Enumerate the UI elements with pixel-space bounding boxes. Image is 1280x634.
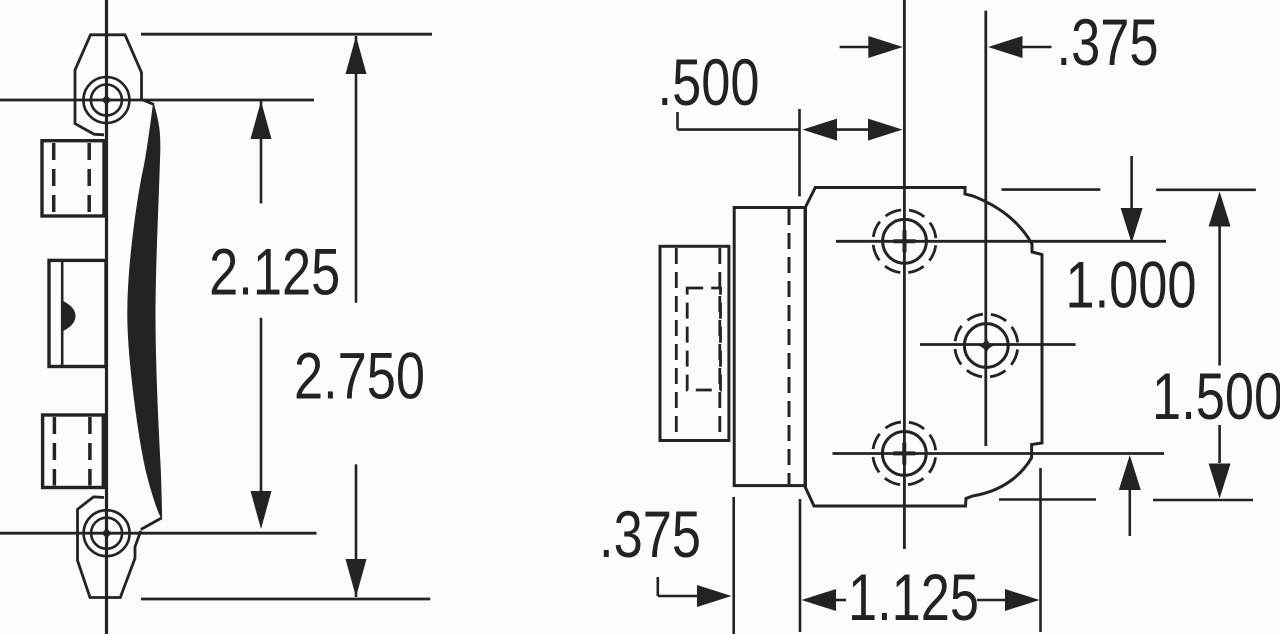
extension line body left edge above: [798, 109, 801, 196]
1.000 top arrow tail: [1130, 156, 1133, 210]
svg-text:1.000: 1.000: [1065, 248, 1196, 322]
1.500 arrow up: [1209, 192, 1231, 227]
bottom hole horizontal centerline: [833, 452, 1165, 455]
terminal end block: [660, 246, 729, 440]
1.125 dimension line left: [830, 599, 846, 602]
.375 top arrow right-pointing: [868, 36, 903, 58]
top hole phillips cross: [99, 93, 114, 108]
extension line 1.500 bottom: [999, 498, 1096, 501]
.375 top arrow left-pointing: [988, 36, 1023, 58]
1.000 arrow up: [1119, 455, 1141, 490]
terminal tab 3 (bottom) rectangle: [43, 415, 104, 488]
middle hole horizontal centerline: [920, 343, 1076, 346]
terminal end hidden line left: [675, 248, 678, 439]
bottom hole horizontal centerline: [0, 532, 317, 535]
top mounting hole dashed circle: [873, 210, 936, 273]
tab 1 hidden line right: [87, 143, 91, 214]
top mounting hole circle: [883, 219, 927, 263]
bottom hole cross: [893, 442, 915, 464]
1.125 dimension line right: [977, 599, 1012, 602]
1.500 top arrow tail: [1218, 226, 1221, 366]
top mounting ear outline: [75, 35, 142, 135]
.500 leader line: [678, 128, 801, 131]
vertical centerline CL1 (mounting holes): [903, 0, 906, 549]
1.500 bottom arrow tail: [1218, 425, 1221, 463]
extension line body top right: [1002, 188, 1101, 191]
terminal end hidden line right: [718, 248, 721, 439]
tab 2 detent bump: [63, 301, 76, 331]
1.125 arrow left-pointing: [802, 589, 837, 611]
bezel block (second block): [734, 208, 805, 486]
2.125 arrow up: [251, 101, 272, 139]
top hole horizontal centerline: [836, 240, 1166, 243]
extension line body left edge below: [799, 499, 802, 632]
dimension line 2.750 lower segment: [355, 464, 358, 597]
terminal end hidden rectangle: [687, 288, 720, 390]
terminal tab 2 (middle) rectangle: [49, 260, 106, 366]
middle hole dashed circle: [955, 314, 1018, 377]
dimension line 2.125 upper segment: [260, 101, 263, 204]
svg-text:.375: .375: [1057, 5, 1159, 79]
vertical centerline CL2 (center hole): [984, 11, 987, 446]
.500 leader hook: [676, 112, 679, 130]
extension line bezel left edge below: [732, 497, 735, 634]
.500 dimension line: [835, 128, 870, 131]
bottom mounting ear outline: [78, 497, 141, 598]
tab 3 hidden line left: [53, 417, 57, 486]
bottom ear to rocker jog: [141, 518, 162, 530]
dimension line 2.125 lower segment: [260, 318, 263, 493]
svg-text:2.750: 2.750: [294, 339, 425, 413]
2.750 arrow down: [346, 559, 367, 597]
.375 top tail left: [840, 46, 875, 49]
.375 top tail right: [1016, 46, 1052, 49]
top hole horizontal centerline: [0, 99, 314, 102]
dimension line 2.750 upper segment: [355, 36, 358, 303]
bottom mounting hole inner circle: [91, 518, 122, 549]
svg-text:1.500: 1.500: [1152, 359, 1280, 433]
bottom mounting hole circle: [882, 432, 926, 476]
2.125 arrow down: [251, 491, 272, 529]
top mounting hole inner circle: [91, 85, 122, 116]
rocker lens crescent (filled): [128, 104, 162, 518]
2.750 arrow up: [346, 36, 367, 74]
top ear to rocker jog: [142, 100, 155, 105]
top extension line: [141, 33, 432, 36]
vertical centerline (left view): [105, 0, 108, 634]
1.000 arrow down: [1121, 208, 1143, 243]
.500 arrow right: [868, 119, 903, 141]
bezel hidden line: [788, 209, 791, 484]
bottom mounting hole outer circle: [84, 510, 130, 556]
.500 arrow left: [803, 119, 838, 141]
tab 2 inner edge line: [61, 262, 64, 365]
.375 bottom leader hook: [656, 577, 659, 596]
top hole cross: [894, 230, 916, 252]
.375 bottom arrow right-pointing: [697, 585, 732, 607]
main body outline: [805, 188, 1042, 507]
top mounting hole outer circle: [83, 77, 129, 123]
bottom extension line: [141, 598, 430, 601]
svg-text:.500: .500: [658, 45, 760, 119]
1.000 bottom arrow tail: [1129, 490, 1132, 536]
extension line flange right edge below: [1039, 468, 1042, 632]
svg-text:2.125: 2.125: [209, 235, 340, 309]
1.500 arrow down: [1209, 464, 1231, 499]
tab 1 hidden line left: [52, 143, 56, 214]
1.125 arrow right-pointing: [1005, 589, 1040, 611]
svg-text:1.125: 1.125: [848, 560, 979, 634]
svg-text:.375: .375: [599, 497, 701, 571]
bottom mounting hole dashed circle: [873, 422, 936, 485]
middle hole cross: [978, 337, 994, 354]
.375 bottom leader line: [658, 595, 706, 598]
tab 3 hidden line right: [88, 417, 92, 486]
bottom hole phillips cross: [99, 526, 114, 541]
middle hole circle: [964, 324, 1008, 368]
terminal tab 1 (top) rectangle: [42, 141, 104, 216]
